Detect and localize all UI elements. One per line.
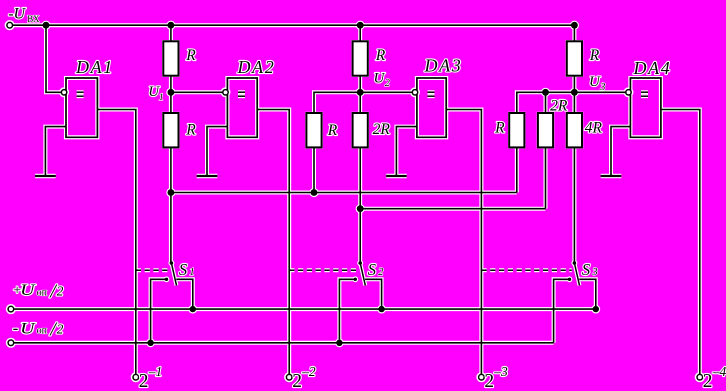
svg-text:R: R [589,47,600,64]
svg-text:DA1: DA1 [75,57,114,77]
svg-text:–4: –4 [712,364,726,379]
svg-text:S: S [179,260,187,279]
svg-text:R: R [185,47,196,64]
svg-text:4R: 4R [585,120,603,137]
svg-text:2: 2 [484,371,494,391]
svg-text:-U: -U [8,6,26,23]
svg-text:R: R [494,120,505,137]
svg-text:U: U [20,282,37,299]
svg-text:U: U [20,320,37,337]
svg-text:ВХ: ВХ [27,14,40,24]
svg-text:1: 1 [189,267,194,278]
svg-text:S: S [368,260,376,279]
svg-text:2: 2 [378,267,384,278]
svg-text:1: 1 [159,93,164,103]
svg-text:3: 3 [599,82,605,93]
svg-text:2: 2 [139,371,149,391]
svg-text:2: 2 [385,78,390,89]
svg-text:R: R [375,47,386,64]
svg-text:R: R [327,122,338,139]
svg-text:R: R [185,121,196,138]
svg-text:2: 2 [57,284,64,299]
svg-text:U: U [374,70,386,86]
svg-text:DA3: DA3 [424,56,463,76]
svg-text:–2: –2 [301,364,316,379]
svg-text:2R: 2R [550,97,568,114]
svg-text:оп: оп [37,288,48,299]
svg-text:DA2: DA2 [237,57,276,77]
svg-text:–3: –3 [493,364,508,379]
svg-text:DA4: DA4 [633,58,672,78]
svg-text:2: 2 [703,371,713,391]
svg-text:U: U [589,74,601,90]
svg-text:3: 3 [591,267,597,278]
svg-text:2R: 2R [373,121,391,138]
svg-text:2: 2 [57,322,64,337]
svg-text:оп: оп [37,326,48,337]
svg-text:S: S [582,260,590,279]
svg-text:-: - [13,318,19,337]
svg-text:2: 2 [292,371,302,391]
svg-text:–1: –1 [148,364,163,379]
